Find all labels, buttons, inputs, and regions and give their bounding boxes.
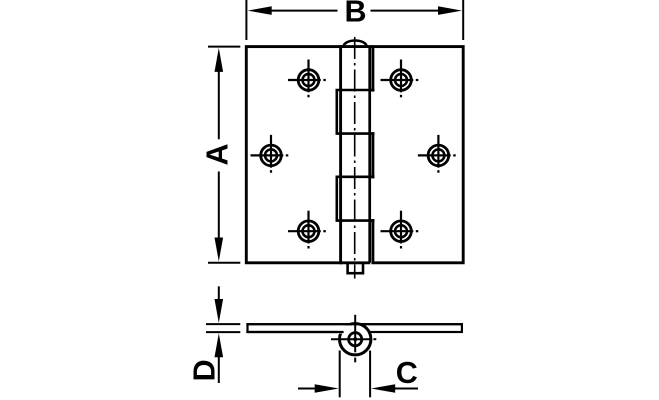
- svg-text:A: A: [200, 143, 234, 165]
- svg-text:B: B: [344, 0, 366, 29]
- svg-text:D: D: [188, 359, 222, 381]
- svg-text:C: C: [396, 356, 418, 390]
